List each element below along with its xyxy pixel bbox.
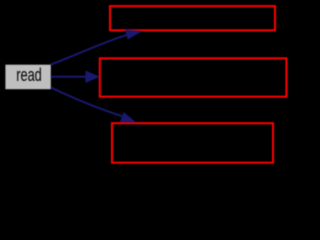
callee box 1 (top, red border) xyxy=(110,6,275,30)
edge read->box2 (straight shaft) xyxy=(51,76,87,78)
svg-text:read: read xyxy=(16,64,42,85)
callee box 2 (middle, red border) xyxy=(100,58,287,96)
edge read->box1 arrowhead xyxy=(125,30,142,39)
node read (gray box) xyxy=(5,65,50,90)
edge read->box3 (curved shaft) xyxy=(51,87,123,116)
edge read->box1 (curved shaft) xyxy=(51,35,127,65)
callee box 3 (bottom, red border) xyxy=(112,123,273,163)
edge read->box3 arrowhead xyxy=(120,112,135,122)
edge read->box2 arrowhead xyxy=(86,71,100,83)
